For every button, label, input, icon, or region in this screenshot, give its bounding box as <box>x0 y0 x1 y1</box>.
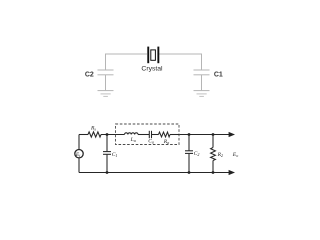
svg-text:Eo: Eo <box>232 152 238 158</box>
svg-text:C1: C1 <box>214 72 223 79</box>
svg-text:C2: C2 <box>194 151 200 157</box>
svg-text:C2: C2 <box>85 72 94 79</box>
svg-text:Crystal: Crystal <box>141 66 163 73</box>
svg-text:La: La <box>130 137 136 143</box>
svg-text:C1: C1 <box>112 152 118 158</box>
svg-text:Ra: Ra <box>163 139 169 145</box>
svg-text:Ca: Ca <box>148 139 154 145</box>
svg-text:Rs: Rs <box>90 126 96 132</box>
svg-text:R2: R2 <box>217 152 223 158</box>
